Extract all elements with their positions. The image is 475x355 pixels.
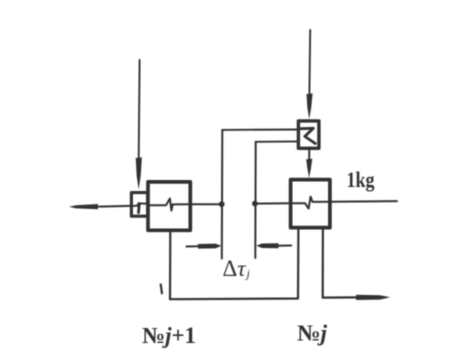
svg-text:№j: №j [297,321,328,346]
svg-text:№j+1: №j+1 [142,323,196,348]
svg-text:Δτ: Δτ [223,256,247,281]
svg-text:1kg: 1kg [347,167,375,192]
